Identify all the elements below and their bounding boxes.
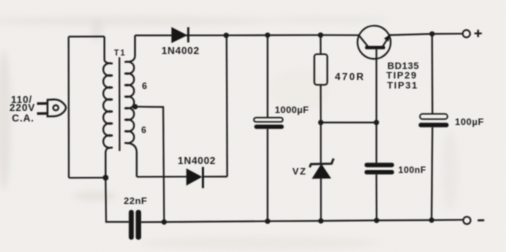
resistor R1 body [314,54,327,85]
diode D2 1N4002 triangle [187,169,201,185]
node tap bottom [161,219,166,224]
diode D1 1N4002 triangle [172,28,187,43]
resistor R1 bottom wire [320,85,322,123]
capacitor C1 1000uF branch top wire [267,35,269,117]
node primary bottom junction [103,175,109,181]
svg-text:C.A.: C.A. [12,114,34,125]
wire top rail left [135,34,359,36]
terminal plus circle [463,30,470,37]
diode D2 cathode bar [202,167,204,188]
svg-text:1N4002: 1N4002 [162,46,200,57]
zener VZ bottom wire [320,178,322,221]
terminal minus circle [463,217,470,224]
capacitor C4 top plate [420,114,448,119]
svg-text:100nF: 100nF [398,165,426,175]
svg-text:T1: T1 [114,49,126,58]
node VZ bottom [318,218,323,223]
capacitor C2 left plate [129,210,134,240]
capacitor C4 100uF top wire [431,34,433,114]
capacitor C2 22nF left wire [106,178,129,222]
svg-text:6: 6 [141,125,146,135]
wire D2 riser [226,35,229,176]
node C4 top [429,31,434,36]
zener VZ triangle [313,165,331,179]
node D2 riser junction [224,33,229,38]
node base row right [374,120,379,125]
transformer T1 primary coil [103,37,112,178]
svg-text:1000µF: 1000µF [275,105,309,116]
wire secondary bottom to D2 [137,176,187,178]
svg-text:TIP31: TIP31 [387,80,418,91]
wire primary left [68,37,70,178]
zener VZ top wire [320,123,322,164]
zener VZ bar [310,159,334,168]
minus sign [478,219,485,221]
svg-text:VZ: VZ [292,167,307,178]
plus sign [474,30,481,37]
wire base row [321,122,377,124]
svg-text:22nF: 22nF [124,196,147,207]
svg-text:100µF: 100µF [455,117,484,128]
capacitor C4 bottom wire [431,127,434,220]
svg-text:1N4002: 1N4002 [178,156,216,167]
capacitor C3 bottom wire [375,175,377,221]
node R1 top [318,32,323,37]
capacitor C2 right plate [136,210,141,240]
transistor Q1 collector lead [359,36,368,47]
transistor Q1 emitter arrow [385,35,391,41]
svg-text:220V: 220V [10,103,36,114]
wire bottom rail [141,220,463,222]
diode D1 cathode bar [187,27,189,42]
capacitor C1 top plate [254,118,283,122]
transistor Q1 base wire down [375,49,377,122]
node C4 bottom [429,217,434,222]
capacitor C1 bottom plate [254,125,284,129]
transistor Q1 circle [358,26,391,59]
capacitor C4 bottom plate [419,123,449,128]
capacitor C3 bottom plate [365,170,395,174]
transistor Q1 emitter lead [383,35,390,46]
resistor R1 470R top wire [320,35,322,54]
node C1 top [265,32,270,37]
svg-text:470R: 470R [335,72,365,83]
wire primary bottom [69,177,106,179]
transistor Q1 base bar [365,46,385,49]
AC plug [37,99,66,116]
svg-text:6: 6 [142,81,147,91]
wire primary top [69,36,105,38]
transformer T1 secondary coil [125,35,137,176]
wire top rail right [389,34,462,35]
capacitor C3 100nF top plate [365,163,395,168]
transformer core [118,57,120,151]
wire center tap to ground rail [135,107,164,222]
node C3 bottom [374,218,379,223]
node C1 bottom [265,219,270,224]
node center tap [132,104,137,109]
wire D2 output [204,176,227,178]
capacitor C3 100nF top wire [375,123,377,163]
node base row left [318,120,323,125]
capacitor C1 bottom wire [267,129,269,221]
